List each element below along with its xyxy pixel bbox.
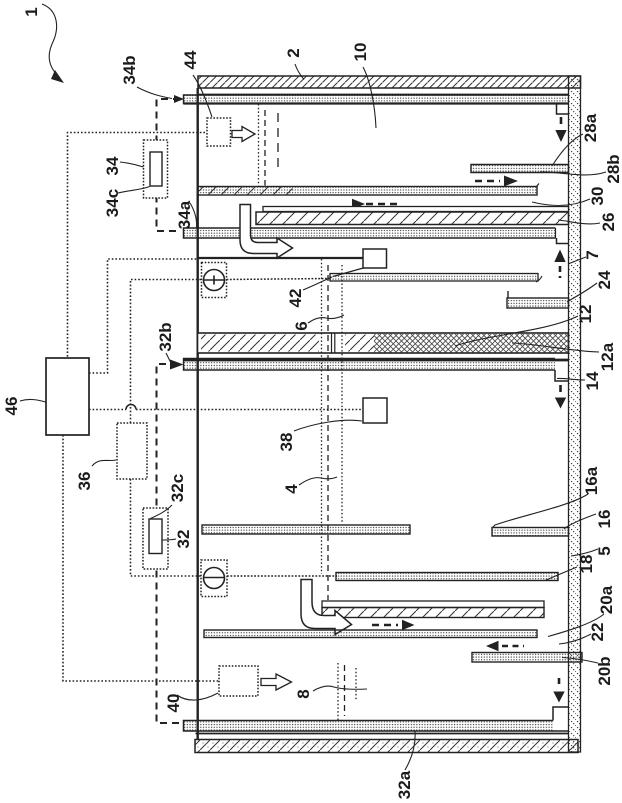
wire 46-to-44 <box>68 133 206 359</box>
svg-text:22: 22 <box>588 623 607 642</box>
thin plate over 26 <box>263 207 569 212</box>
svg-text:44: 44 <box>181 50 200 69</box>
arrowhead at pipe 34b end <box>174 95 184 103</box>
bar 16a <box>492 528 569 537</box>
svg-text:14: 14 <box>583 371 602 390</box>
arrowhead at pipe 32b end <box>170 360 184 370</box>
wire 46-to-38 with hop <box>89 409 126 411</box>
svg-text:24: 24 <box>595 270 614 289</box>
step at pipe 34a right end <box>557 238 569 244</box>
svg-text:16a: 16a <box>582 466 601 495</box>
svg-text:2: 2 <box>284 48 303 57</box>
dashed down arrow top right <box>555 117 566 142</box>
dashed right arrow under 28a <box>475 176 518 187</box>
svg-text:40: 40 <box>164 694 183 713</box>
wire 36-to-plus-electrode <box>131 280 202 424</box>
box 34 outer <box>144 140 168 198</box>
box 34c inner <box>150 152 162 186</box>
wire 46-to-40 <box>63 435 219 681</box>
svg-text:38: 38 <box>277 433 296 452</box>
hollow arrow at 40 <box>261 674 292 690</box>
svg-text:28a: 28a <box>581 113 600 142</box>
dashed up arrow 7 <box>554 250 565 279</box>
svg-text:16: 16 <box>595 510 614 529</box>
box 46 controller <box>46 358 89 435</box>
svg-text:12a: 12a <box>598 342 617 371</box>
bar 24 <box>507 291 569 308</box>
pipe 20a <box>204 630 537 638</box>
electrode plate 18 <box>336 573 558 581</box>
electrode plate 42 <box>330 274 542 283</box>
svg-text:10: 10 <box>351 43 370 62</box>
hollow arrow at 44 <box>232 127 255 142</box>
connector 42-box to plate <box>333 268 365 277</box>
step at chamber4 top right <box>555 370 569 381</box>
svg-text:34: 34 <box>103 156 122 175</box>
svg-text:26: 26 <box>599 213 618 232</box>
box 38 <box>363 398 387 423</box>
top wall 2 <box>198 76 581 88</box>
pipe 34b <box>184 95 569 104</box>
svg-text:32c: 32c <box>168 474 187 502</box>
svg-text:5: 5 <box>595 546 614 555</box>
step at pipe 32a right end <box>553 707 569 721</box>
wire 46-to-42 <box>89 259 198 373</box>
box 32c inner <box>149 519 162 554</box>
dashed left arrow above 26 <box>352 199 397 210</box>
svg-text:4: 4 <box>282 484 301 494</box>
box 40 <box>219 666 258 696</box>
svg-text:7: 7 <box>583 250 602 259</box>
box 44 <box>207 118 231 146</box>
bar 28a <box>471 165 569 173</box>
wire minus-electrode-to-plate18 <box>227 575 337 577</box>
elbow arrow chamber4-outlet <box>301 580 352 635</box>
dashed left arrow 20b <box>486 641 524 651</box>
svg-text:32a: 32a <box>395 770 414 799</box>
svg-text:1: 1 <box>22 7 41 16</box>
pipe 20b <box>472 653 582 663</box>
svg-text:34b: 34b <box>120 55 139 84</box>
dashed right arrow bottom channel <box>372 620 415 630</box>
svg-text:18: 18 <box>577 555 596 574</box>
svg-text:20b: 20b <box>595 656 614 685</box>
svg-text:34c: 34c <box>103 189 122 217</box>
pipe 34a <box>184 228 556 238</box>
partition 12 <box>198 333 569 354</box>
arrowhead of figure-1 leader <box>51 70 64 83</box>
notch under pipe 34b right end <box>557 104 569 115</box>
level lines chambers 6 and 4 <box>322 259 343 600</box>
dashed down arrow bottom right <box>553 678 564 703</box>
hatched plate 26 <box>256 212 569 225</box>
level lines chamber 2 <box>259 104 279 186</box>
electrode box plus <box>202 263 227 298</box>
electrode box minus <box>201 560 227 597</box>
top inner liner line <box>198 93 569 95</box>
dashed link 32b-32a <box>157 364 182 723</box>
level lines chamber 8 <box>338 663 356 720</box>
dashed down arrow chamber4 right <box>555 385 566 409</box>
svg-text:34a: 34a <box>175 200 194 229</box>
wire 36-to-minus-electrode <box>131 479 202 576</box>
svg-text:20a: 20a <box>597 585 616 614</box>
svg-text:42: 42 <box>286 289 305 308</box>
svg-text:30: 30 <box>588 187 607 206</box>
hatched floor chamber4 <box>322 608 544 618</box>
right wall 5 <box>569 76 581 752</box>
elbow arrow chamber2-to-34a <box>240 205 293 259</box>
box 32 outer <box>143 508 168 569</box>
svg-text:12: 12 <box>576 305 595 324</box>
svg-text:46: 46 <box>2 397 21 416</box>
thin floor plate chamber4 <box>322 601 544 608</box>
box 36 <box>117 423 147 479</box>
svg-text:32b: 32b <box>156 322 175 351</box>
dashed link 34b-34a <box>157 99 182 231</box>
svg-text:32: 32 <box>174 530 193 549</box>
svg-text:36: 36 <box>75 472 94 491</box>
bar 30 <box>198 184 540 196</box>
shell bottom line <box>196 733 570 735</box>
left tank wall <box>196 88 198 740</box>
box 42 <box>363 249 387 268</box>
bar 16 <box>202 525 410 534</box>
pipe 32a drain <box>184 721 569 732</box>
wire plus-electrode-to-plate <box>227 279 332 280</box>
svg-text:28b: 28b <box>604 154 622 183</box>
bottom wall <box>195 740 578 753</box>
svg-text:6: 6 <box>292 321 311 330</box>
wire wall-to-42 <box>198 257 365 259</box>
svg-text:8: 8 <box>294 689 313 698</box>
pipe 32b <box>184 359 569 371</box>
